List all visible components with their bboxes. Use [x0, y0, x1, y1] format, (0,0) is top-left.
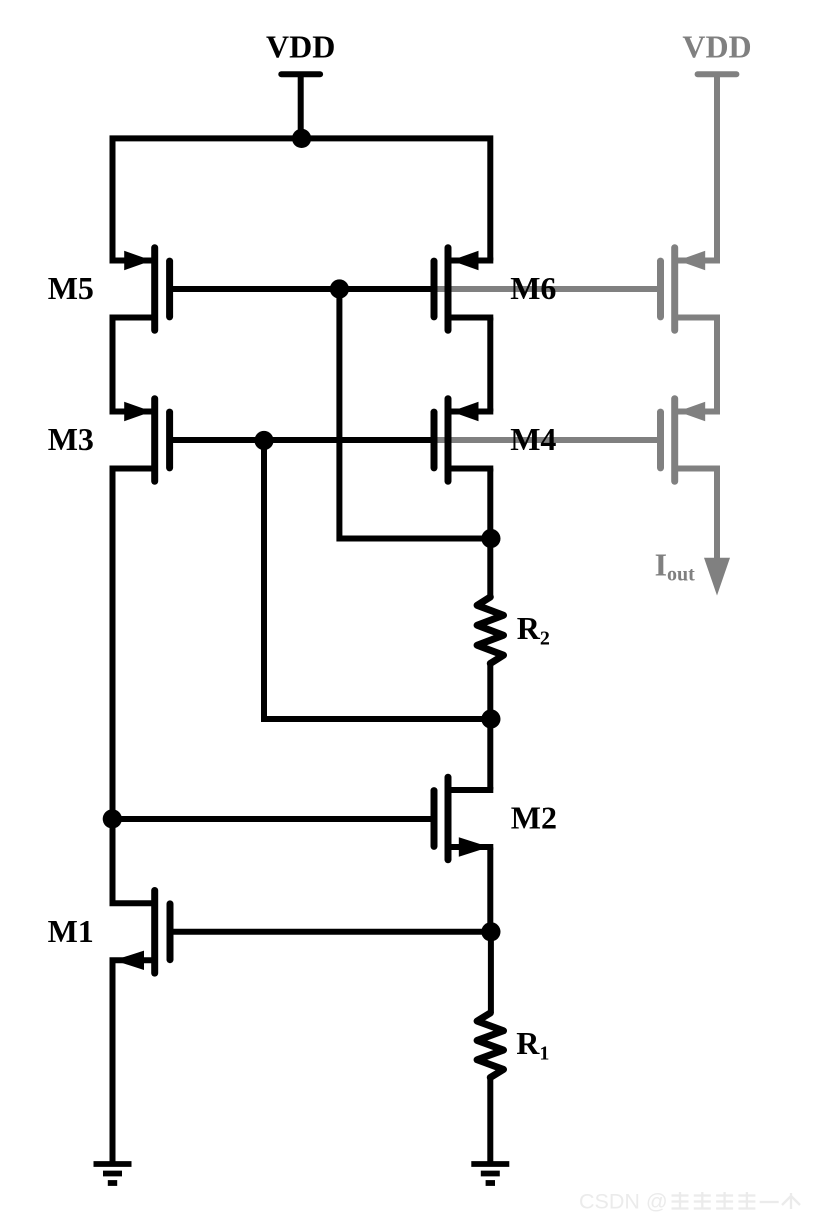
transistor M3 source lead [110, 409, 155, 415]
svg-text:VDD: VDD [266, 28, 335, 64]
transistor M2 source arrow [459, 837, 490, 856]
gray wire: M4 gate to gray mirror transistor gate [434, 437, 661, 443]
transistor gray-M4-mirror drain lead [675, 466, 720, 472]
wire: node down to R1 [488, 932, 494, 1013]
transistor M5 channel bar [151, 248, 158, 331]
transistor M2 drain lead [448, 787, 493, 793]
gray wire: mirror M4 drain down to Iout arrow [714, 469, 720, 563]
wire: M5 drain to M3 source [110, 318, 116, 412]
ground (right) [471, 1164, 509, 1183]
wire: gate node down and right to R2 top node [339, 289, 491, 539]
transistor gray-M4-mirror source lead [675, 409, 720, 415]
transistor M4 source lead [448, 409, 493, 415]
svg-text:M4: M4 [510, 421, 556, 457]
transistor M6 drain lead [448, 315, 493, 321]
transistor M4 gate bar [431, 412, 438, 468]
transistor gray-M6-mirror source lead [675, 258, 720, 264]
gray wire: VDD stem down to M6-copy source [714, 74, 720, 260]
wire: M3 gate to M4 gate [173, 437, 435, 443]
transistor M1 drain lead [110, 900, 155, 906]
transistor M5 gate bar [166, 261, 173, 317]
transistor M1 channel bar [151, 891, 158, 974]
svg-text:M6: M6 [510, 270, 556, 306]
wire: R2 bottom to M2 drain [487, 664, 493, 790]
node: VDD junction on top rail [292, 129, 311, 148]
wire: gate node down and right to R2 bottom node [264, 441, 491, 720]
transistor M6 channel bar [445, 248, 452, 331]
gray wire: M6 gate to gray mirror transistor gate [434, 286, 661, 292]
wire: M5 gate to M6 gate [173, 286, 435, 292]
watermark CJK glyphs [672, 1192, 689, 1209]
transistor M3 channel bar [151, 399, 158, 482]
transistor M1 source lead [110, 957, 155, 963]
transistor M1 source arrow [114, 951, 144, 970]
wire: left rail M3 drain down to M1 drain [110, 469, 116, 904]
transistor gray-M6-mirror source arrow [678, 251, 706, 270]
transistor M4 channel bar [445, 399, 452, 482]
transistor M3 gate bar [166, 412, 173, 468]
transistor M4 drain lead [448, 466, 493, 472]
svg-text:Iout: Iout [655, 547, 696, 586]
wire: VDD stem [298, 74, 304, 138]
node: M1 gate / M2 source / R1 junction [481, 922, 500, 941]
transistor M6 gate bar [431, 261, 438, 317]
transistor gray-M4-mirror gate bar [657, 412, 664, 468]
svg-text:M5: M5 [48, 270, 94, 306]
wire: M2 source down to M1 gate node [487, 848, 493, 932]
node: R2 bottom junction [481, 709, 500, 728]
transistor gray-M6-mirror drain lead [675, 315, 720, 321]
transistor gray-M4-mirror source arrow [678, 402, 706, 421]
ground (left) [94, 1164, 132, 1183]
transistor M2 channel bar [445, 777, 452, 860]
transistor M2 gate bar [431, 791, 438, 847]
svg-text:M2: M2 [511, 800, 557, 836]
resistor R2 zigzag [477, 597, 503, 664]
svg-text:CSDN @: CSDN @ [579, 1190, 668, 1214]
wire: M6 drain to M4 source [487, 318, 493, 412]
transistor M5 drain lead [110, 315, 155, 321]
node: M2 gate junction on left rail [103, 809, 122, 828]
wire: M1 source to ground [110, 960, 116, 1166]
transistor M6 source arrow [451, 251, 479, 270]
transistor M3 source arrow [124, 402, 152, 421]
svg-text:R2: R2 [517, 610, 550, 650]
gray wire: mirror M6 drain to mirror M4 source [714, 318, 720, 412]
svg-text:M3: M3 [48, 421, 94, 457]
svg-text:VDD: VDD [682, 28, 751, 64]
Iout arrowhead [704, 558, 730, 596]
transistor M6 source lead [448, 258, 493, 264]
node: M3/M4 gate junction [254, 431, 273, 450]
transistor gray-M6-mirror gate bar [657, 261, 664, 317]
wire: M2 gate to left rail [113, 816, 435, 822]
node: M4 drain / gate-feedback junction [481, 529, 500, 548]
svg-text:M1: M1 [48, 913, 94, 949]
transistor M2 source lead [448, 844, 493, 850]
transistor M4 source arrow [451, 402, 479, 421]
wire: M4 drain to R2 top [487, 469, 493, 598]
resistor R1 zigzag [477, 1013, 503, 1078]
transistor gray-M6-mirror channel bar [671, 248, 678, 331]
wire: R1 bottom to ground [487, 1078, 493, 1167]
transistor gray-M4-mirror channel bar [671, 399, 678, 482]
transistor M3 drain lead [110, 466, 155, 472]
transistor M1 gate bar [167, 904, 174, 960]
svg-text:R1: R1 [516, 1025, 549, 1065]
wire: top rail from M5 source to M6 source [113, 138, 491, 260]
node: M5/M6 gate junction [330, 279, 349, 298]
wire: M1 gate to R1 top node [173, 929, 491, 935]
transistor M5 source arrow [124, 251, 152, 270]
gray VDD supply symbol [698, 71, 737, 77]
VDD supply symbol [281, 71, 320, 77]
transistor M5 source lead [110, 258, 155, 264]
